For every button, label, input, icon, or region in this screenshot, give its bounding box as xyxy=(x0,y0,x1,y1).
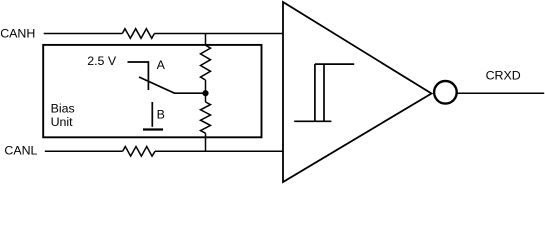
switch blade SW1 xyxy=(139,77,203,93)
hysteresis symbol right vertical xyxy=(323,64,325,121)
svg-text:CANH: CANH xyxy=(0,26,35,40)
wire CANH right segment to comparator xyxy=(154,33,283,35)
hysteresis symbol left vertical xyxy=(314,64,316,121)
junction node dot xyxy=(202,90,208,96)
wire CANH left segment xyxy=(44,33,123,35)
wire R3 to node xyxy=(205,80,207,93)
bias unit box xyxy=(43,45,261,137)
svg-text:CANL: CANL xyxy=(4,144,37,158)
wire CANH to R3 xyxy=(205,34,207,46)
svg-text:Unit: Unit xyxy=(51,115,74,129)
resistor R3 (upper bias divider) xyxy=(201,45,211,80)
wire CANL left segment xyxy=(45,150,123,152)
resistor R1 (CANH series) xyxy=(122,29,154,39)
svg-text:A: A xyxy=(157,58,166,72)
svg-text:B: B xyxy=(157,108,165,122)
svg-text:2.5 V: 2.5 V xyxy=(87,54,117,68)
hysteresis symbol bottom line xyxy=(294,120,331,122)
wire 2.5V to contact A xyxy=(128,62,149,90)
wire CRXD output xyxy=(457,92,544,94)
hysteresis symbol top line xyxy=(315,63,354,65)
contact B bar xyxy=(143,128,163,130)
wire R4 to CANL xyxy=(205,133,207,151)
contact B stub xyxy=(151,102,153,127)
comparator U1 triangle xyxy=(283,2,432,182)
wire node to R4 xyxy=(205,93,207,102)
svg-text:CRXD: CRXD xyxy=(486,68,521,82)
resistor R4 (lower bias divider) xyxy=(201,102,211,133)
resistor R2 (CANL series) xyxy=(123,147,155,157)
svg-text:Bias: Bias xyxy=(51,102,75,116)
inverter bubble xyxy=(434,81,457,104)
wire CANL right segment to comparator xyxy=(155,150,283,152)
